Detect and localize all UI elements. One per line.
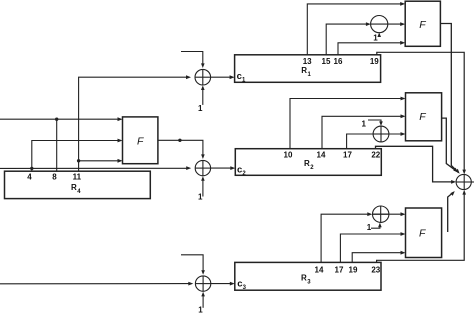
R4 tap11 riser lower: [78, 161, 80, 171]
svg-text:1: 1: [362, 120, 367, 129]
wire F2 output to output xor: [442, 118, 457, 171]
xor B1 const stub: [378, 34, 380, 36]
wire R1 tap13 to F1: [307, 4, 401, 55]
svg-text:11: 11: [73, 173, 82, 182]
wire R4 bit11 to c1: [79, 77, 187, 161]
xor B1 (constant 1 into R1 feedback): [371, 16, 388, 33]
svg-text:R: R: [304, 159, 310, 168]
xor B3 const bent arrow: [371, 226, 380, 228]
wire xor to F1: [371, 23, 401, 25]
wire R1 tap15 to xor: [326, 24, 366, 55]
output xor: [456, 174, 471, 189]
wire c2 to R2: [211, 167, 232, 169]
c3 horizontal chord: [195, 283, 210, 285]
svg-text:1: 1: [367, 223, 372, 232]
output wire to right edge: [471, 181, 474, 183]
svg-text:16: 16: [334, 57, 343, 66]
wire R3 tap19 to F3: [352, 253, 401, 263]
svg-text:4: 4: [77, 189, 81, 195]
wire R4 bit4 line to c2: [0, 167, 188, 169]
wire R2 tap10 to F2: [290, 99, 402, 149]
wire R3 bit23 to output xor: [377, 194, 465, 263]
svg-text:F: F: [419, 228, 426, 240]
c3 const 1 stub: [202, 295, 204, 308]
wire xor to F2: [373, 133, 401, 135]
c1 top stub wire: [181, 52, 203, 67]
R1 name label: [301, 66, 311, 78]
c3 vertical chord: [202, 276, 204, 291]
svg-text:17: 17: [343, 151, 352, 160]
R3 name label: [301, 274, 311, 286]
svg-text:19: 19: [349, 266, 358, 275]
c1 input label: [237, 71, 246, 84]
svg-text:8: 8: [52, 173, 57, 182]
wire R3 tap17 to F3: [340, 234, 401, 262]
R4 name label: [71, 183, 81, 195]
c3 input label: [237, 278, 246, 291]
svg-text:R: R: [71, 183, 77, 192]
register R3: [235, 262, 381, 290]
wire c3 to R3: [211, 283, 231, 285]
majority box F4: [123, 117, 158, 164]
wire R4 tap4 to F4: [32, 141, 119, 172]
xor B3 horizontal chord: [373, 213, 389, 215]
majority box F1: [405, 1, 440, 46]
wire input line to c3: [0, 283, 190, 285]
R2 name label: [304, 159, 314, 171]
svg-text:F: F: [419, 19, 426, 31]
svg-text:15: 15: [322, 57, 331, 66]
svg-text:1: 1: [198, 305, 203, 313]
svg-text:14: 14: [315, 266, 324, 275]
xor B3 (constant 1): [373, 206, 389, 222]
wire R1 bit19 to output xor: [377, 52, 464, 170]
svg-text:F: F: [419, 111, 426, 123]
majority box F2: [406, 93, 442, 141]
wire xor to F3: [373, 213, 402, 215]
wire R2 bit22 to output xor: [376, 146, 452, 182]
register R4: [5, 171, 151, 198]
svg-text:1: 1: [198, 104, 203, 113]
xor B2 (constant 1): [373, 126, 389, 142]
svg-text:4: 4: [27, 173, 32, 182]
output xor horizontal chord: [456, 181, 471, 183]
wire R2 tap17 to xor: [347, 134, 374, 149]
wire c1 to R1: [211, 76, 232, 78]
svg-text:17: 17: [335, 266, 344, 275]
svg-text:F: F: [137, 136, 144, 148]
majority box F3: [406, 208, 442, 258]
svg-text:2: 2: [310, 165, 314, 171]
c1 horizontal chord: [195, 76, 211, 78]
junction dot tap11: [77, 159, 80, 162]
svg-text:1: 1: [308, 72, 312, 78]
junction dot tap4: [30, 167, 33, 170]
c2 input label: [237, 164, 246, 177]
wire F1 output to output xor: [440, 24, 458, 173]
svg-text:23: 23: [371, 266, 380, 275]
wire F4 output to c2: [158, 140, 203, 156]
svg-text:R: R: [301, 66, 307, 75]
svg-text:10: 10: [284, 151, 293, 160]
clock xor c3: [195, 276, 210, 291]
c2 const 1 stub: [202, 179, 204, 196]
svg-text:R: R: [301, 274, 307, 283]
output xor vertical chord: [463, 174, 465, 189]
clock xor c2: [195, 160, 210, 175]
junction dot F4 out: [178, 139, 181, 142]
R4 tap8 riser: [56, 119, 58, 171]
wire R4 tap11 to F4: [79, 160, 119, 162]
xor B3 vertical chord: [380, 206, 382, 222]
svg-text:1: 1: [373, 33, 378, 42]
wire F3 output stub to output xor: [448, 192, 454, 232]
c1 vertical chord: [202, 69, 204, 85]
clock xor c1: [195, 69, 211, 85]
junction dot tap8: [55, 118, 58, 121]
wire R1 tap16 to F1: [338, 43, 401, 55]
c1 const 1 stub: [202, 89, 204, 105]
wire R3 tap14 to xor: [321, 214, 368, 262]
svg-text:19: 19: [370, 57, 379, 66]
xor B2 vertical chord: [380, 126, 382, 142]
svg-text:3: 3: [307, 280, 311, 286]
xor B2 const bent arrow: [368, 120, 381, 123]
c3 top stub wire: [181, 255, 203, 273]
c2 vertical chord: [202, 160, 204, 175]
c2 horizontal chord: [195, 167, 210, 169]
svg-text:13: 13: [303, 57, 312, 66]
wire R2 tap14 to F2: [322, 116, 402, 148]
xor B2 horizontal chord: [373, 133, 389, 135]
svg-text:22: 22: [371, 151, 380, 160]
svg-text:1: 1: [198, 193, 203, 202]
wire left line through R4 tap8 to F4: [0, 118, 119, 120]
register R1: [235, 55, 381, 83]
register R2: [235, 149, 381, 176]
svg-text:14: 14: [317, 151, 326, 160]
